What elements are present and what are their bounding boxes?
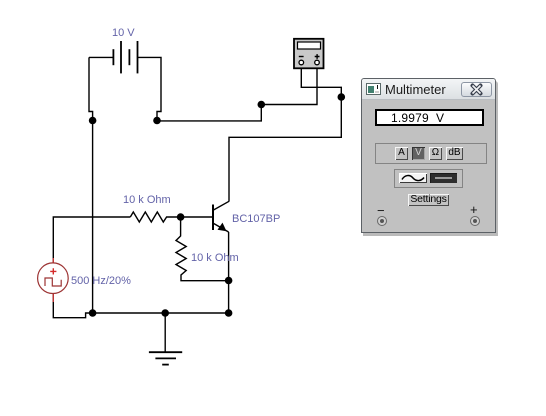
node bus left <box>89 309 97 317</box>
pulse source V1 <box>38 263 69 294</box>
ground <box>149 313 182 365</box>
node bus ground <box>161 309 169 317</box>
wire source bottom red stub <box>52 294 54 303</box>
plus label <box>470 202 478 217</box>
title text <box>385 82 446 97</box>
button dc <box>430 173 457 183</box>
title icon <box>366 83 381 95</box>
minus label <box>377 203 385 218</box>
button sine <box>399 173 427 183</box>
wire source bottom lead <box>53 294 92 318</box>
button A <box>395 147 408 160</box>
node emitter/R2 <box>225 277 233 285</box>
wire node to multimeter plus <box>261 69 317 105</box>
titlebar <box>362 79 495 100</box>
multimeter icon XMM1 <box>294 39 324 69</box>
button Ohm <box>429 147 442 160</box>
battery V2 plates <box>113 41 137 73</box>
wire source top lead <box>53 217 130 263</box>
label 10 k Ohm R1 <box>123 194 171 206</box>
node battery left <box>89 117 97 125</box>
button dB <box>446 147 463 160</box>
label 10 k Ohm R2 <box>191 252 239 264</box>
transistor Q1 <box>213 201 229 280</box>
label 10 V <box>112 27 135 39</box>
label BC107BP <box>232 213 280 225</box>
display <box>375 109 484 126</box>
wire bottom bus <box>93 312 229 314</box>
node plus wire <box>258 101 266 109</box>
resistor R1 <box>130 212 180 222</box>
terminal minus <box>377 216 387 226</box>
node battery right <box>153 117 161 125</box>
battery V2 leads <box>89 57 161 120</box>
settings button <box>408 194 449 206</box>
wire source top red stub <box>52 258 54 263</box>
wire battery to node <box>157 105 261 121</box>
label 500 Hz/20% <box>71 275 131 287</box>
mode group <box>375 143 487 164</box>
node minus wire <box>338 93 346 101</box>
wire multimeter minus lead <box>301 69 341 98</box>
wire minus to collector <box>229 97 341 202</box>
button V <box>412 147 425 160</box>
terminal plus <box>470 216 480 226</box>
node base/R2 <box>177 213 185 221</box>
close button <box>461 82 492 97</box>
signal group <box>394 169 463 188</box>
wire emitter to bus <box>228 281 230 314</box>
wire left bus <box>92 121 94 314</box>
node bus emitter <box>225 309 233 317</box>
resistor R2 <box>176 217 229 281</box>
multimeter window <box>361 78 496 233</box>
wire base <box>181 216 213 218</box>
